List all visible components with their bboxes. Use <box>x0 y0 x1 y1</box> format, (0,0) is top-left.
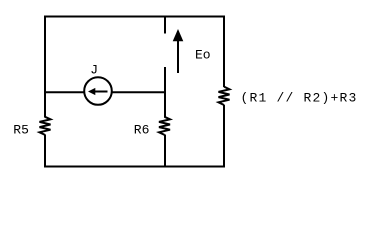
svg-text:(R1 // R2)+R3: (R1 // R2)+R3 <box>241 91 358 106</box>
resistor R5 <box>40 117 51 135</box>
svg-text:R6: R6 <box>134 122 150 137</box>
current source J arrow (points left) <box>95 91 108 93</box>
wire: left vertical lower (R5 to bottom rail) <box>44 135 46 168</box>
wire: middle vertical (open terminal to R6 via middle node) <box>164 67 166 118</box>
svg-text:R5: R5 <box>13 123 29 138</box>
resistor (R1 // R2)+R3 <box>219 87 230 105</box>
svg-text:Eo: Eo <box>195 48 211 63</box>
wire: left vertical upper (top rail to R5) <box>44 16 46 118</box>
wire: right vertical lower ((R1//R2)+R3 to bottom rail) <box>223 105 225 168</box>
wire: bottom horizontal (node bottom rail) <box>44 166 225 168</box>
resistor R6 <box>159 117 170 135</box>
wire: top horizontal (node top rail) <box>44 16 225 18</box>
wire: middle horizontal left (left rail to current source J) <box>44 91 84 93</box>
svg-text:J: J <box>90 63 98 78</box>
wire: middle vertical stub from top rail (open terminal) <box>164 16 166 34</box>
current source J (circle) <box>84 77 112 105</box>
wire: right vertical upper (top rail to (R1//R2)+R3) <box>223 16 225 88</box>
wire: middle vertical lower (R6 to bottom rail) <box>164 135 166 168</box>
wire: middle horizontal right (current source J to middle node) <box>112 91 166 93</box>
arrow Eo (output voltage, points up) <box>177 37 179 73</box>
